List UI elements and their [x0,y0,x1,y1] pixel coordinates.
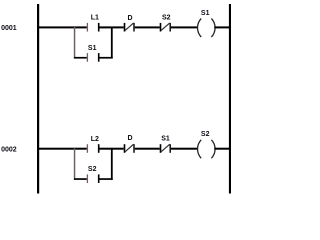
svg-text:L1: L1 [91,15,99,22]
contact S2 (NC) [160,23,171,32]
branch rung1 right vertical [111,27,113,59]
wire rung2: L2 to contact D [99,148,123,150]
svg-text:S1: S1 [201,10,210,17]
coil S1 [198,19,216,38]
svg-text:0002: 0002 [1,146,17,153]
contact L2 (NO) [87,144,100,153]
wire rung1: S2 to coil S1 [171,26,198,28]
contact S1 (NO, parallel branch) [87,53,100,62]
contact L1 (NO) [87,23,100,32]
wire rung2: D to contact S1 [135,148,160,150]
branch rung1 bottom wire right [99,57,112,59]
wire rung1: L1 to contact D [99,26,123,28]
svg-text:S2: S2 [162,14,171,21]
branch rung1 left vertical [74,27,76,59]
contact D rung2 (NC) [124,144,135,153]
contact S1 (NC) [160,144,171,153]
wire rung2: S1 to coil S2 [171,148,198,150]
branch rung2 left vertical [74,148,76,180]
wire rung2: coil to rail [214,148,229,150]
svg-text:S1: S1 [161,135,170,142]
svg-text:S2: S2 [201,131,210,138]
svg-text:S1: S1 [88,45,97,52]
svg-text:S2: S2 [88,166,97,173]
branch rung2 bottom wire right [99,178,112,180]
wire rung1: D to contact S2 [135,26,160,28]
svg-text:L2: L2 [91,136,99,143]
branch rung2 right vertical [111,148,113,180]
svg-text:D: D [127,135,132,142]
branch rung2 bottom wire left [74,178,87,180]
wire rung1: coil to rail [214,26,229,28]
contact D (NC) [124,23,135,32]
left power rail [37,4,39,194]
contact S2 (NO, parallel branch) [87,174,100,183]
coil S2 [198,140,216,159]
wire rung2: rail to contact L2 [39,148,87,150]
svg-text:D: D [127,15,132,22]
svg-text:0001: 0001 [1,25,17,32]
branch rung1 bottom wire left [74,57,87,59]
right power rail [229,4,231,194]
wire rung1: rail to contact L1 [39,26,87,28]
